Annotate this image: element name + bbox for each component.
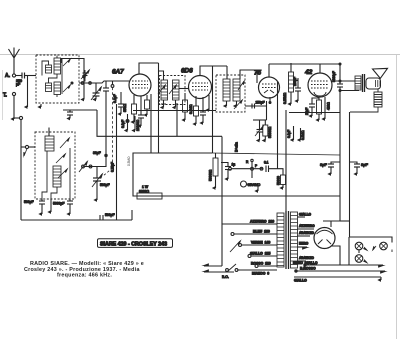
svg-text:25μF: 25μF: [305, 108, 309, 115]
filter cap 8uF right: [350, 162, 369, 174]
svg-text:0.25MΩ: 0.25MΩ: [283, 92, 287, 104]
tube V4 42: [269, 64, 340, 97]
grid resistor chains under V3/V4: [287, 126, 305, 140]
chassis box lower-left: [21, 210, 132, 220]
oscillator padder variable 500pF: [92, 167, 110, 201]
svg-text:AZZURRO 220: AZZURRO 220: [250, 220, 274, 224]
screen supply vertical x=158: [158, 63, 160, 153]
diode load network: [253, 101, 272, 141]
B+ vertical to taps x=222: [221, 137, 223, 225]
svg-text:T.: T.: [3, 93, 8, 99]
IF transformer T1 (dashed box): [158, 71, 189, 108]
svg-text:75: 75: [254, 70, 262, 77]
svg-text:500pF: 500pF: [100, 183, 110, 187]
wire antenna node down to ground: [27, 76, 29, 108]
tube V1 6A7: [112, 63, 159, 96]
secondary taps: [298, 213, 316, 262]
output line NERO GIALLO: [293, 261, 383, 266]
svg-text:B.O.: B.O.: [222, 275, 229, 279]
coupling cap series: [264, 161, 283, 176]
oscillator coil L2 (dashed box): [35, 128, 75, 200]
tuning capacitor C1 variable: [91, 83, 101, 100]
svg-text:GIALLO: GIALLO: [299, 213, 312, 217]
pilot lamp box: [349, 237, 392, 265]
svg-text:0.1μF: 0.1μF: [287, 130, 291, 138]
svg-text:50000: 50000: [277, 176, 281, 185]
phono jack GRAMO: [241, 170, 261, 191]
HT line (x=348): [349, 112, 351, 237]
grid resistor 50000: [277, 175, 286, 188]
B+ line (x=340): [339, 63, 341, 221]
AVC feed line x=116.5: [111, 104, 117, 220]
svg-text:0.1μF: 0.1μF: [121, 120, 125, 128]
V4 cathode resistor 420 ohm: [305, 97, 331, 120]
pilot lamp 2: [373, 242, 387, 250]
svg-text:R: R: [246, 160, 249, 164]
band switch S1: [79, 162, 106, 173]
gang link dashed: [103, 81, 114, 176]
antenna: [5, 48, 20, 80]
svg-text:42: 42: [304, 69, 313, 76]
svg-text:AZZURRO: AZZURRO: [299, 224, 315, 228]
output transformer T3: [355, 74, 365, 92]
mains input: [204, 264, 240, 279]
svg-text:ARANCIO: ARANCIO: [299, 231, 314, 235]
svg-text:BLEU 160: BLEU 160: [253, 230, 270, 234]
series cap 500pF bottom: [100, 213, 115, 220]
left rail terminal: [13, 116, 23, 220]
AVC bus: [97, 110, 222, 136]
V2 bypass cap: [200, 97, 206, 123]
field coil: [350, 89, 382, 112]
svg-text:B+alta: B+alta: [235, 142, 239, 152]
svg-text:GIALLO: GIALLO: [294, 279, 307, 283]
svg-text:1µ: 1µ: [232, 163, 236, 167]
svg-text:VERDE 140: VERDE 140: [251, 241, 270, 245]
screen feed vertical x=212: [212, 66, 214, 153]
tube V3 75: [254, 64, 280, 169]
svg-text:10000Ω: 10000Ω: [136, 119, 140, 131]
terminal T (earth): [3, 92, 16, 119]
pickup switch contacts: [229, 159, 264, 170]
power transformer T4: [277, 211, 298, 269]
osc grid components: [113, 92, 124, 114]
svg-text:GIALLO 125: GIALLO 125: [250, 252, 270, 256]
svg-text:ARANCIO: ARANCIO: [299, 256, 314, 260]
coupling network R-C to V4 grid: [283, 63, 301, 104]
svg-text:250pF: 250pF: [256, 101, 265, 105]
resistor 6800 ohm 1W on box edge: [137, 185, 162, 199]
screen bypass cap V1: [138, 96, 144, 126]
svg-text:5000pF: 5000pF: [53, 202, 65, 206]
svg-text:0.3MΩ: 0.3MΩ: [189, 104, 193, 114]
antenna coil L1 (dashed box): [36, 55, 79, 103]
ground coil tap: [50, 199, 52, 212]
svg-text:pF: pF: [16, 83, 21, 87]
pilot lamp 1: [355, 242, 367, 253]
rectifier tube V5 80: [314, 228, 340, 266]
output line B ROSSO: [295, 267, 385, 273]
AVC resistor chains to bus: [121, 114, 140, 131]
resistor 50000 ohm: [209, 153, 219, 188]
rectifier feed from B+: [323, 221, 350, 227]
svg-text:30pF: 30pF: [93, 151, 101, 155]
filter cap 8uF left: [320, 162, 340, 174]
cathode resistor string V1: [123, 95, 137, 122]
svg-text:100pF: 100pF: [293, 77, 297, 86]
svg-text:6A7: 6A7: [112, 69, 124, 76]
page edge scan lines: [0, 54, 400, 56]
resistor label 0.5M near box edge: [127, 156, 131, 166]
V2 cathode string: [194, 96, 199, 124]
svg-text:ROSSO 110: ROSSO 110: [251, 262, 271, 266]
wire coil to RF grid: [61, 59, 129, 100]
ground bus y=112.5 right: [289, 112, 340, 114]
svg-text:B.ROSSO: B.ROSSO: [300, 267, 316, 271]
svg-text:8μF: 8μF: [320, 162, 328, 167]
svg-text:0.25μF: 0.25μF: [111, 162, 115, 172]
padder cap 5000pF: [53, 199, 73, 214]
svg-text:1 W: 1 W: [142, 185, 149, 189]
svg-text:BIANCO 0: BIANCO 0: [252, 272, 269, 276]
tube V2 6D6: [181, 66, 227, 99]
svg-text:50000Ω: 50000Ω: [209, 169, 213, 181]
title box SIARE 429 - CROSLEY 243: [98, 239, 173, 248]
loudspeaker: [366, 68, 388, 89]
svg-text:NERO: NERO: [299, 242, 309, 246]
capacitor 250pF antenna series: [16, 73, 36, 87]
AVC return vertical x=177: [176, 103, 178, 137]
svg-text:6800Ω: 6800Ω: [139, 190, 150, 194]
ground under antenna coil: [40, 104, 42, 107]
svg-text:0.5MΩ: 0.5MΩ: [301, 130, 305, 140]
osc terminal: [21, 145, 35, 156]
svg-text:0.5MΩ: 0.5MΩ: [127, 156, 131, 166]
svg-text:420Ω: 420Ω: [327, 102, 331, 110]
antenna trimmer cap: [81, 70, 89, 82]
svg-text:0.1μF: 0.1μF: [113, 94, 117, 103]
trimmer C2: [93, 81, 109, 167]
capacitor 8000pF tone: [332, 64, 343, 87]
caption text: [24, 261, 144, 279]
svg-text:6D6: 6D6: [181, 68, 193, 75]
svg-text:SIARE 429 - CROSLEY 243: SIARE 429 - CROSLEY 243: [100, 242, 167, 248]
AF section box: [133, 153, 340, 196]
svg-text:50000Ω: 50000Ω: [268, 126, 272, 138]
primary taps: [222, 220, 277, 276]
svg-text:P: P: [255, 164, 257, 168]
V2 screen feed: [189, 95, 209, 114]
V3 diode wire with 250pF: [245, 97, 271, 109]
svg-text:frequenza: 466 kHz.: frequenza: 466 kHz.: [57, 273, 112, 279]
svg-text:0.1: 0.1: [264, 161, 269, 165]
svg-text:A.: A.: [5, 73, 11, 79]
IF transformer T2 (dashed box): [216, 66, 257, 112]
tone cap branch: [221, 163, 235, 180]
wire V4 plate to output transformer: [331, 80, 359, 92]
svg-text:8μF: 8μF: [361, 162, 369, 167]
svg-text:8000pF: 8000pF: [332, 71, 336, 82]
svg-text:350Ω: 350Ω: [123, 103, 127, 112]
svg-text:NERO GIALLO: NERO GIALLO: [293, 261, 318, 265]
padder cap 500pF: [24, 199, 45, 214]
plate supply vertical x=151: [150, 94, 152, 153]
6D6 grid resistor: [183, 93, 188, 120]
svg-text:500pF: 500pF: [105, 213, 115, 217]
pilot lamp 3: [355, 255, 367, 263]
svg-text:500pF: 500pF: [24, 200, 34, 204]
net label B+: [235, 142, 239, 152]
wire padder top: [63, 110, 97, 119]
grid leak V1: [145, 95, 150, 115]
primary feed wire: [285, 110, 287, 211]
grid return bus y=110.5: [133, 110, 216, 112]
output line GIALLO: [294, 277, 381, 283]
